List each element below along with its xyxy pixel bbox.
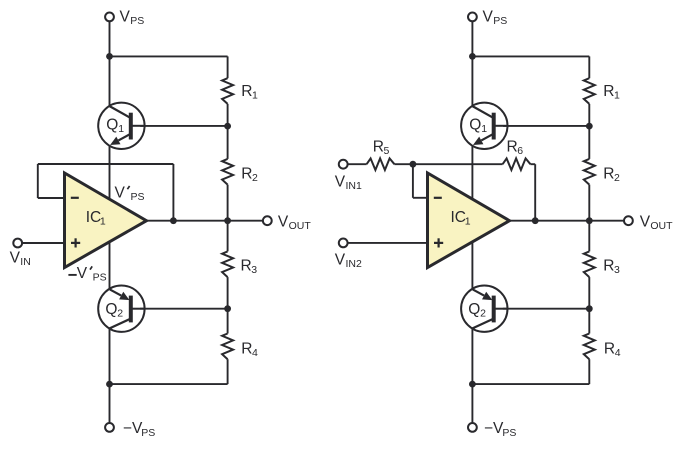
svg-text:PS: PS: [141, 427, 155, 439]
svg-text:Q: Q: [105, 301, 117, 318]
svg-text:OUT: OUT: [289, 220, 312, 232]
svg-text:R: R: [507, 139, 518, 156]
svg-text:R: R: [603, 166, 614, 183]
svg-text:IC: IC: [86, 209, 102, 226]
svg-text:4: 4: [252, 347, 258, 359]
svg-text:1: 1: [100, 216, 106, 228]
svg-text:R: R: [241, 166, 252, 183]
svg-text:OUT: OUT: [650, 220, 673, 232]
svg-text:R: R: [241, 341, 252, 358]
svg-text:4: 4: [615, 347, 621, 359]
svg-text:PS: PS: [93, 271, 107, 283]
svg-text:2: 2: [614, 172, 620, 184]
svg-text:R: R: [604, 341, 615, 358]
svg-text:V: V: [115, 185, 126, 202]
svg-text:V: V: [640, 214, 651, 231]
svg-text:3: 3: [614, 264, 620, 276]
svg-text:Q: Q: [106, 116, 118, 133]
svg-text:5: 5: [384, 145, 390, 157]
svg-text:1: 1: [252, 89, 258, 101]
svg-text:IN1: IN1: [346, 180, 363, 192]
svg-text:V: V: [120, 9, 131, 26]
svg-text:6: 6: [517, 145, 523, 157]
svg-text:R: R: [603, 257, 614, 274]
svg-text:V: V: [335, 252, 346, 269]
svg-text:V: V: [335, 173, 346, 190]
svg-text:R: R: [603, 83, 614, 100]
svg-text:1: 1: [481, 123, 487, 135]
svg-text:PS: PS: [130, 15, 144, 27]
svg-text:R: R: [241, 83, 252, 100]
svg-text:−V: −V: [123, 420, 143, 437]
svg-text:V: V: [10, 249, 21, 266]
svg-text:2: 2: [252, 172, 258, 184]
svg-text:1: 1: [614, 89, 620, 101]
svg-text:1: 1: [465, 216, 471, 228]
svg-text:−V: −V: [484, 420, 504, 437]
svg-text:PS: PS: [493, 15, 507, 27]
svg-text:IN: IN: [20, 256, 31, 268]
svg-text:IC: IC: [451, 209, 467, 226]
svg-text:PS: PS: [502, 427, 516, 439]
svg-text:2: 2: [480, 308, 486, 320]
svg-text:Q: Q: [469, 116, 481, 133]
svg-text:V: V: [278, 214, 289, 231]
svg-text:PS: PS: [131, 191, 145, 203]
svg-text:V: V: [77, 265, 88, 282]
svg-text:R: R: [241, 257, 252, 274]
svg-text:Q: Q: [468, 301, 480, 318]
svg-text:IN2: IN2: [346, 258, 363, 270]
svg-text:R: R: [373, 139, 384, 156]
svg-text:V: V: [483, 9, 494, 26]
svg-text:1: 1: [118, 123, 124, 135]
svg-text:2: 2: [117, 308, 123, 320]
svg-text:3: 3: [251, 264, 257, 276]
